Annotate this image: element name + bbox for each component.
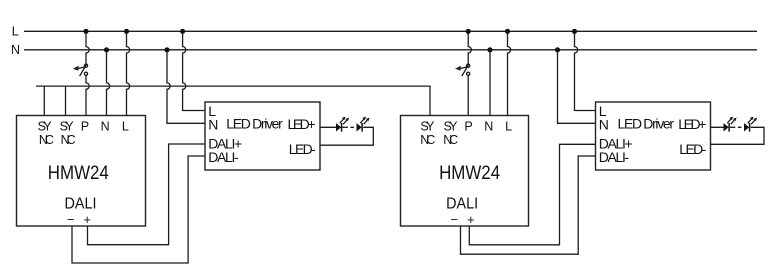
svg-text:N: N	[484, 119, 493, 133]
svg-text:LED+: LED+	[288, 116, 316, 132]
wire dashed LED link driver1	[344, 126, 356, 128]
svg-text:−: −	[67, 212, 75, 227]
svg-text:NC: NC	[420, 133, 435, 147]
wire N riser driver1 (hops SY line)	[167, 50, 205, 124]
wire N riser module2	[489, 50, 491, 116]
wire SY1 drop box1	[43, 86, 45, 115]
svg-text:LED+: LED+	[678, 116, 706, 132]
svg-text:−: −	[451, 212, 459, 227]
wire P riser module1 (through switch, hops N rail and SY line)	[86, 31, 89, 115]
LED D2 (driver1 second)	[357, 117, 370, 132]
wire DALI+ module1 (box1 plus terminal to driver1 DALI+)	[88, 144, 206, 245]
svg-text:LED Driver: LED Driver	[618, 116, 675, 132]
box HMW24 #2	[401, 116, 529, 227]
svg-text:LED-: LED-	[679, 141, 706, 157]
svg-text:+: +	[83, 212, 91, 227]
junction dots L rail	[83, 29, 577, 34]
wire dashed LED link driver2	[732, 126, 744, 128]
LED D1 (driver1 first)	[336, 117, 349, 132]
svg-text:SY: SY	[444, 119, 459, 133]
labels box1 terminals	[38, 119, 129, 147]
svg-text:DALI: DALI	[446, 195, 478, 212]
svg-text:NC: NC	[61, 133, 76, 147]
wire L riser driver2 (hops N rail)	[575, 31, 596, 110]
wire P riser module2 (through switch, hops N rail)	[468, 31, 471, 115]
svg-text:LED Driver: LED Driver	[226, 116, 283, 132]
wire L riser module2 (hops N rail)	[508, 31, 511, 115]
box LED Driver #1	[205, 102, 320, 170]
svg-text:N: N	[101, 119, 110, 133]
box LED Driver #2	[596, 102, 711, 170]
svg-text:LED-: LED-	[289, 141, 316, 157]
wire LED loop driver1	[320, 127, 373, 145]
junction dots N rail	[104, 47, 560, 52]
svg-text:DALI: DALI	[65, 195, 97, 212]
svg-text:+: +	[467, 212, 475, 227]
svg-text:L: L	[505, 119, 512, 133]
wire N riser module1 (hops SY line)	[107, 50, 110, 116]
svg-text:N: N	[599, 116, 609, 132]
svg-text:P: P	[81, 119, 89, 133]
LED D3 (driver2 first)	[724, 117, 737, 132]
LED D4 (driver2 second)	[744, 117, 757, 132]
svg-text:N: N	[208, 116, 218, 132]
svg-text:DALI-: DALI-	[208, 149, 239, 165]
wire DALI- module2 (box2 minus terminal to driver2 DALI-)	[461, 156, 596, 254]
svg-text:SY: SY	[38, 119, 53, 133]
wire N riser driver2	[558, 50, 596, 124]
svg-text:HMW24: HMW24	[48, 162, 109, 184]
net L rail	[24, 30, 757, 32]
switch S2	[458, 64, 470, 76]
wire DALI+ module2 (box2 plus terminal to driver2 DALI+)	[469, 144, 595, 245]
wire L riser module1 (hops N rail and SY line)	[127, 31, 130, 115]
wire DALI- module1 (box1 minus terminal to driver1 DALI-)	[72, 156, 205, 263]
svg-text:SY: SY	[60, 119, 75, 133]
svg-text:SY: SY	[420, 119, 435, 133]
svg-text:L: L	[12, 25, 19, 39]
svg-text:HMW24: HMW24	[439, 162, 500, 184]
svg-text:P: P	[464, 119, 472, 133]
switch S1	[76, 64, 88, 76]
wire SY2 drop box1	[65, 86, 67, 115]
svg-text:L: L	[122, 119, 129, 133]
svg-text:NC: NC	[443, 133, 458, 147]
labels box2 terminals	[420, 119, 512, 147]
box HMW24 #1	[17, 116, 146, 227]
svg-text:DALI-: DALI-	[599, 149, 630, 165]
net N rail	[24, 49, 757, 51]
svg-text:N: N	[11, 43, 20, 57]
wire SY feed line to box2	[36, 86, 430, 115]
wire L riser driver1 (hops N rail and SY line)	[183, 31, 205, 110]
wire LED loop driver2	[711, 127, 765, 144]
labels driver1	[208, 103, 316, 165]
svg-text:NC: NC	[39, 133, 54, 147]
labels driver2	[599, 103, 707, 165]
